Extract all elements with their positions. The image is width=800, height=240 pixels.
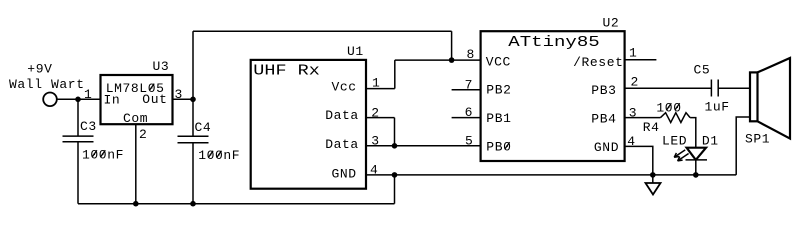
svg-text:U1: U1 [347,44,364,59]
wire U2 pin3 to R4 [625,117,661,119]
svg-text:8: 8 [467,47,475,62]
svg-text:In: In [104,92,121,107]
svg-text:VCC: VCC [486,55,511,70]
svg-text:PB0: PB0 [486,140,511,155]
wire U1 pin2 drop [394,118,396,146]
node junction C4 on bus [190,201,196,207]
wire Vcc rail top horizontal [193,30,452,32]
wire U2 pin1 stub [625,59,657,61]
wire R4 to LED corner [690,118,696,148]
svg-text:1: 1 [629,46,637,61]
wire LED cathode to GND net [695,160,697,175]
wire U2 pin4 out [625,146,653,175]
wire bus riser to U1 GND [394,175,396,204]
svg-text:GND: GND [332,166,357,181]
LED D1 triangle [687,148,706,160]
svg-text:PB3: PB3 [591,83,616,98]
svg-text:SP1: SP1 [745,132,770,147]
wire C3 lower stub [77,142,79,204]
capacitor C3 plates [63,135,94,137]
svg-text:U2: U2 [603,16,620,31]
wire pin8 horizontal [395,59,481,61]
svg-text:Data: Data [325,108,359,123]
wire U3 Com down to bus [135,124,137,204]
LED arrow 1 [674,150,685,157]
slash on 0 of PB0 [505,142,510,149]
wire GND net U1 pin4 to speaker drop [366,174,736,176]
node junction C4/rail tap [190,97,196,103]
capacitor C4 plates [178,135,209,137]
slash on 0 of LM78L05 [149,84,154,91]
wire C4 lower stub [192,143,194,204]
ground symbol [652,175,654,183]
svg-text:1: 1 [84,87,92,102]
node junction LED/GND [693,172,699,178]
svg-text:ATtiny85: ATtiny85 [508,35,599,51]
wire connector to U3 In [57,98,101,100]
capacitor C5 plates [710,80,712,97]
wire C5 to speaker [718,87,750,89]
resistor R4 zigzag [661,113,691,123]
mcu U2 box [481,31,625,161]
svg-text:100: 100 [656,101,681,116]
speaker SP1 horn [758,58,791,139]
svg-text:C5: C5 [694,62,711,77]
wire Vcc rail vertical [192,31,194,99]
svg-text:100nF: 100nF [198,148,240,163]
wire U2 pin6 stub [452,117,481,119]
svg-text:LED: LED [662,133,687,148]
node junction U2 GND [650,172,656,178]
wire U3 Out to C4 [173,98,194,100]
svg-text:Out: Out [142,92,167,107]
ground bus bottom [78,203,395,205]
node junction C3 tap [75,97,81,103]
svg-text:Wall Wart: Wall Wart [9,77,85,92]
wire U2 pin7 stub [452,89,481,91]
wire U1 pin2 out [366,117,395,119]
wire Vcc rail drop to pin8 [451,31,453,60]
svg-text:GND: GND [594,140,619,155]
wire U1 pin1 out [366,88,395,90]
LED D1 cathode bar [686,159,708,161]
svg-text:UHF Rx: UHF Rx [253,62,320,78]
svg-text:PB4: PB4 [591,111,616,126]
wire U1 pin3 to U2 pin5 [366,145,481,147]
svg-text:1uF: 1uF [705,99,730,114]
svg-text:R4: R4 [643,120,660,135]
svg-text:D1: D1 [702,133,719,148]
node junction pin2/pin3 [392,143,398,149]
wire C3 upper stub [77,99,79,136]
LED arrow 2 [678,154,689,161]
wire U1 pin1 riser [394,60,396,89]
speaker SP1 driver rect [750,72,758,121]
svg-text:U3: U3 [153,59,170,74]
svg-text:2: 2 [631,75,639,90]
svg-text:C3: C3 [80,119,97,134]
slashes on 00 of R4 100 [667,103,672,110]
svg-text:C4: C4 [195,120,212,135]
node junction U3 pin2 on bus [133,201,139,207]
svg-text:Com: Com [123,111,148,126]
svg-text:Data: Data [325,137,359,152]
svg-text:Vcc: Vcc [332,80,357,95]
wire C4 upper stub [192,99,194,136]
svg-text:+9V: +9V [27,62,52,77]
svg-text:PB1: PB1 [486,111,511,126]
wire speaker GND riser [736,117,750,175]
svg-text:/Reset: /Reset [573,55,623,70]
slashes on 00 of C3 100nF [92,150,97,157]
zero slashes (schematic font style) [92,84,680,158]
svg-text:PB2: PB2 [486,83,511,98]
connector J1 circle [43,93,57,107]
receiver U1 box [251,60,366,189]
node junction Vcc/pin8 [449,57,455,63]
svg-text:2: 2 [139,127,147,142]
node junction U1 pin4/bus [392,172,398,178]
svg-text:5: 5 [465,134,473,149]
wire U2 pin2 to C5 [625,87,712,89]
svg-text:100nF: 100nF [82,148,124,163]
regulator U3 box [101,75,173,124]
slashes on 00 of C4 100nF [208,151,213,158]
